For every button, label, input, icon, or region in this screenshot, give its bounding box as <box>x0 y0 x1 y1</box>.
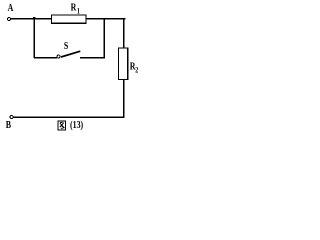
svg-text:R: R <box>71 1 77 14</box>
wire bottom horizontal <box>13 116 124 118</box>
wire right vertical bottom <box>123 79 125 118</box>
terminal A <box>8 18 11 21</box>
wire left riser <box>33 19 35 58</box>
wire switch branch right <box>80 57 105 59</box>
svg-text:2: 2 <box>135 66 138 75</box>
caption text (13) <box>70 119 83 132</box>
svg-text:S: S <box>64 40 68 53</box>
node A label <box>8 2 14 15</box>
wire top horizontal <box>11 18 125 20</box>
switch S pivot <box>57 55 60 58</box>
svg-text:A: A <box>8 2 14 15</box>
svg-text:1: 1 <box>77 7 80 16</box>
caption glyph tu (figure) <box>58 121 65 130</box>
svg-text:B: B <box>6 119 12 132</box>
junction dot <box>33 17 36 20</box>
terminal B <box>10 116 13 119</box>
resistor R2 <box>119 48 128 79</box>
svg-text:(13): (13) <box>70 119 83 132</box>
wire right vertical top <box>123 19 125 49</box>
label R2 <box>130 60 136 73</box>
label R1 <box>71 1 77 14</box>
node B label <box>6 119 12 132</box>
wire switch branch left <box>34 57 57 59</box>
resistor R1 <box>52 15 87 23</box>
switch S blade <box>61 51 80 57</box>
wire right riser of switch branch <box>103 19 105 58</box>
label S <box>64 40 68 53</box>
